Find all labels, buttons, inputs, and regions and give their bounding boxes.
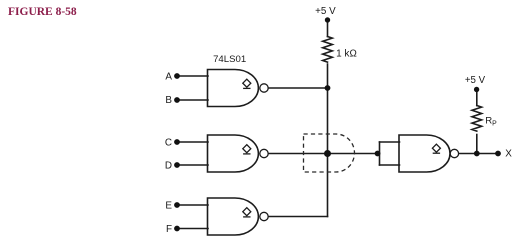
svg-text:+5 V: +5 V [465, 75, 486, 86]
svg-text:FIGURE 8-58: FIGURE 8-58 [8, 6, 77, 18]
svg-text:C: C [165, 138, 172, 149]
svg-text:B: B [165, 95, 172, 106]
svg-text:RP: RP [485, 116, 497, 128]
svg-text:1 kΩ: 1 kΩ [336, 48, 357, 59]
svg-text:A: A [165, 72, 172, 83]
svg-text:F: F [166, 224, 172, 235]
svg-text:E: E [165, 201, 172, 212]
svg-text:D: D [165, 161, 172, 172]
svg-text:X: X [505, 149, 512, 160]
svg-text:74LS01: 74LS01 [213, 54, 246, 65]
svg-text:+5 V: +5 V [315, 6, 336, 17]
